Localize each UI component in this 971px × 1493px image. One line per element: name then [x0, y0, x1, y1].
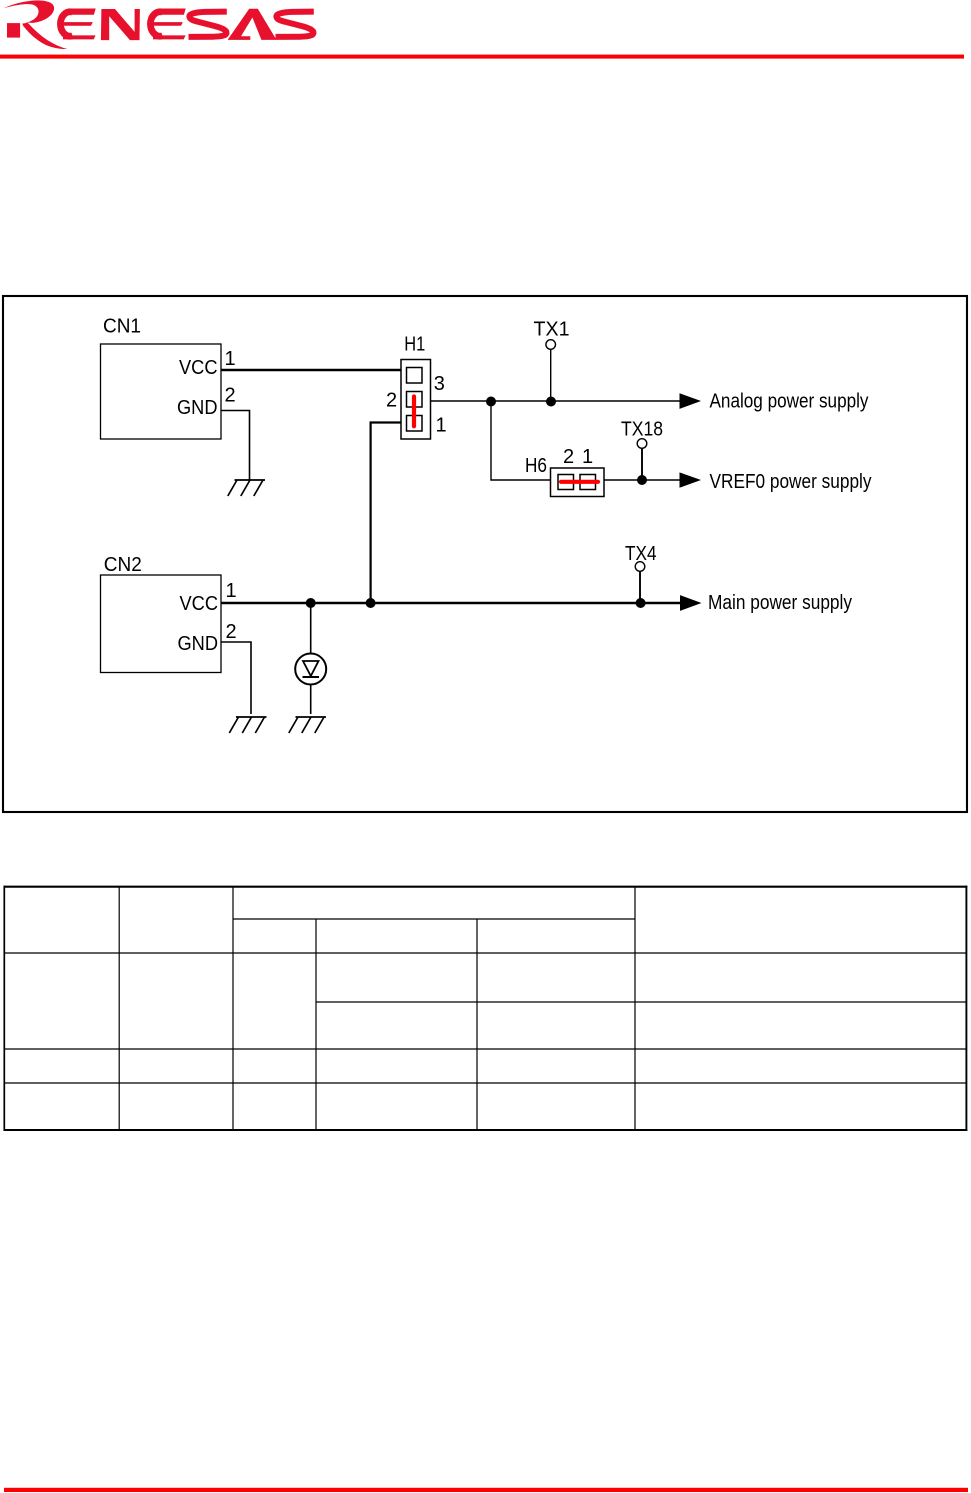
svg-text:CN1: CN1: [103, 316, 141, 338]
svg-text:2: 2: [563, 446, 574, 468]
svg-text:2: 2: [225, 384, 236, 406]
svg-text:VREF0 power supply: VREF0 power supply: [710, 471, 872, 493]
svg-text:Analog power supply: Analog power supply: [710, 390, 869, 412]
svg-text:H6: H6: [525, 455, 547, 477]
svg-text:TX4: TX4: [625, 543, 657, 565]
svg-text:TX1: TX1: [534, 319, 570, 341]
svg-text:VCC: VCC: [180, 593, 219, 615]
svg-text:3: 3: [434, 373, 445, 395]
svg-text:GND: GND: [177, 397, 218, 419]
svg-text:1: 1: [582, 446, 593, 468]
svg-text:VCC: VCC: [179, 357, 218, 379]
svg-text:H1: H1: [404, 334, 425, 356]
svg-text:2: 2: [226, 621, 237, 643]
svg-text:1: 1: [436, 414, 447, 436]
svg-text:CN2: CN2: [104, 554, 142, 576]
svg-text:1: 1: [226, 580, 237, 602]
svg-text:GND: GND: [178, 633, 219, 655]
svg-text:2: 2: [386, 390, 397, 412]
svg-text:TX18: TX18: [621, 419, 663, 441]
svg-text:1: 1: [225, 348, 236, 370]
svg-text:Main power supply: Main power supply: [708, 592, 852, 614]
